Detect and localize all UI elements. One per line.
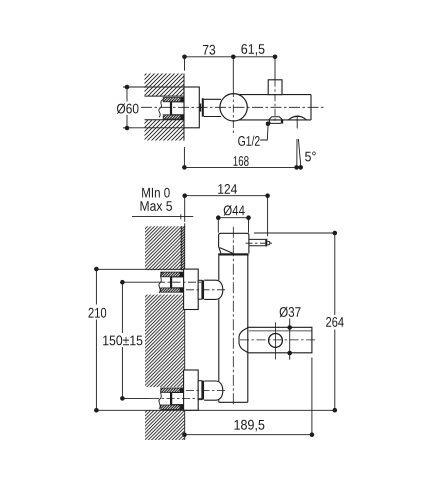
wall section (top view) <box>145 74 185 141</box>
dimension 189,5 <box>182 432 314 437</box>
upper tailpiece <box>198 280 202 299</box>
dimension text 168 <box>234 156 249 166</box>
lower inlet centerline <box>186 390 227 392</box>
dimension text 124 <box>218 184 237 194</box>
S-union body (top view) <box>171 101 184 115</box>
dimension text O37 <box>280 307 301 317</box>
aerator centerline <box>246 242 273 244</box>
arm centerline <box>240 339 318 341</box>
dimension O60 <box>123 85 184 131</box>
dimension text 189,5 <box>235 420 265 432</box>
dimension text 150+-15 <box>103 335 142 345</box>
dimension O37 <box>287 319 292 360</box>
lower union centerline <box>151 397 202 399</box>
centerline of cartridge (top view) <box>232 89 234 134</box>
dimension text 73 <box>203 45 215 55</box>
dimension 264 <box>333 231 338 413</box>
aerator tube <box>249 239 270 247</box>
upper union centerline <box>157 281 204 283</box>
clamp ring thick bar (top view) <box>202 98 204 116</box>
lower tailpiece <box>198 381 202 400</box>
dimension text O44 <box>224 205 245 215</box>
wall finish layer dark strip <box>181 226 185 440</box>
wall escutcheon flange (top view) <box>184 87 199 128</box>
centerline of knob (top view) <box>274 80 276 123</box>
dimension text 264 <box>326 317 344 327</box>
lower union seal top <box>161 388 184 393</box>
dimension 150+-15 <box>120 280 157 401</box>
faucet body outline (top view) <box>239 95 311 120</box>
upper union seal bottom <box>161 287 184 292</box>
label Max 5 <box>141 201 173 211</box>
lower clamp ring <box>202 381 204 400</box>
shared bottom extension line <box>96 409 334 411</box>
upper escutcheon nut <box>184 269 199 309</box>
handle arm <box>239 327 312 353</box>
dimension text 61,5 <box>241 44 264 56</box>
upper clamp ring <box>202 280 204 299</box>
spout outlet boss (top view) <box>288 116 306 120</box>
upper union pipe break <box>159 272 163 293</box>
main centerline horizontal (top view) <box>141 106 325 108</box>
cartridge circle (top view) <box>220 94 247 121</box>
dimension text 5deg <box>305 152 316 162</box>
spout housing cap <box>219 233 249 253</box>
dimension O44 <box>216 215 251 232</box>
pipe seal upper (top view) <box>163 97 184 102</box>
upper inlet dome <box>204 280 223 299</box>
upper inlet centerline <box>186 289 227 291</box>
upper union seal top <box>161 272 184 278</box>
diverter knob (top view) <box>268 80 282 95</box>
lower union pipe break <box>159 388 163 409</box>
max5 reference line <box>132 214 193 219</box>
pipe break symbol (top view) <box>159 99 164 117</box>
lower escutcheon nut <box>184 370 199 410</box>
dimension text 210 <box>89 308 107 318</box>
lower inlet dome <box>204 381 223 400</box>
screw hole vertical centerline <box>275 322 277 359</box>
column centerline <box>232 227 234 406</box>
retaining ring tick (top view) <box>200 104 202 112</box>
dimension 168 <box>182 147 303 170</box>
cap joint thick band <box>218 253 248 255</box>
label G1/2 with leader <box>238 121 270 146</box>
label MIn 0 <box>142 188 170 198</box>
dimension 124 <box>182 193 270 233</box>
body column <box>219 255 248 402</box>
arm right extension line <box>311 358 313 437</box>
lower union body <box>171 392 184 405</box>
pipe seal lower (top view) <box>163 115 184 120</box>
spout tip extension line <box>254 232 335 234</box>
dimension 73 / 61,5 line <box>182 55 277 90</box>
dimension 210 <box>94 267 184 413</box>
lower union seal bottom <box>161 405 184 410</box>
5 degree angle lines <box>297 116 301 168</box>
upper union body <box>171 277 184 289</box>
dimension text O60 <box>117 103 139 113</box>
wall section (front view) <box>145 226 184 440</box>
outlet boss G1/2 (top view) <box>269 117 283 120</box>
handle screw hole O37 circle <box>269 334 283 348</box>
connection neck (top view) <box>204 99 221 116</box>
